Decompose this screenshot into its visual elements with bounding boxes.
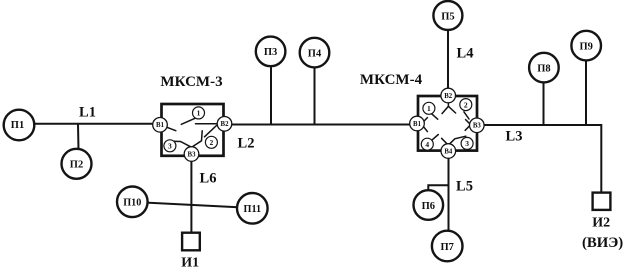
- svg-text:И1: И1: [181, 256, 199, 271]
- svg-text:П2: П2: [70, 160, 83, 171]
- svg-text:В2: В2: [444, 93, 453, 100]
- svg-text:МКСМ-3: МКСМ-3: [160, 74, 222, 90]
- svg-text:П10: П10: [123, 197, 141, 208]
- svg-text:L6: L6: [200, 171, 217, 187]
- svg-text:2: 2: [210, 138, 214, 147]
- svg-text:П7: П7: [440, 242, 453, 253]
- svg-text:П11: П11: [244, 204, 262, 215]
- svg-text:П9: П9: [579, 41, 592, 52]
- svg-text:L3: L3: [506, 129, 523, 145]
- svg-text:П3: П3: [264, 47, 277, 58]
- svg-text:П1: П1: [11, 120, 24, 131]
- svg-text:L4: L4: [457, 46, 474, 62]
- svg-text:И2: И2: [592, 216, 610, 231]
- svg-text:L1: L1: [79, 105, 96, 121]
- svg-text:1: 1: [427, 104, 431, 113]
- svg-text:В2: В2: [221, 121, 230, 128]
- svg-text:(ВИЭ): (ВИЭ): [582, 235, 623, 251]
- svg-text:П6: П6: [422, 201, 435, 212]
- svg-text:В1: В1: [413, 121, 422, 128]
- svg-text:В4: В4: [444, 148, 453, 155]
- svg-text:2: 2: [464, 100, 468, 109]
- svg-text:П4: П4: [308, 48, 322, 59]
- svg-text:МКСМ-4: МКСМ-4: [360, 72, 423, 88]
- svg-text:3: 3: [168, 142, 172, 151]
- svg-text:В3: В3: [188, 151, 197, 158]
- svg-text:В1: В1: [156, 122, 165, 129]
- svg-text:П8: П8: [537, 63, 550, 74]
- svg-text:4: 4: [425, 140, 429, 149]
- svg-text:3: 3: [465, 139, 469, 148]
- svg-text:П5: П5: [441, 11, 454, 22]
- svg-text:В3: В3: [473, 123, 482, 130]
- svg-text:L2: L2: [238, 136, 255, 152]
- svg-text:L5: L5: [456, 179, 473, 195]
- svg-text:1: 1: [197, 109, 201, 118]
